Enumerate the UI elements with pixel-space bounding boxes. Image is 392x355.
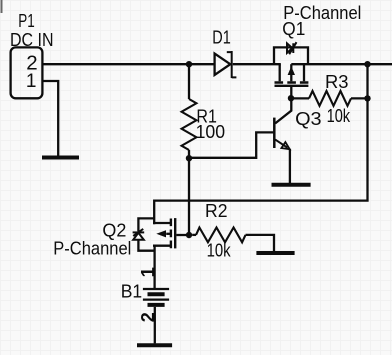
svg-text:2: 2 (138, 312, 158, 322)
svg-text:1: 1 (137, 267, 158, 277)
svg-text:B1: B1 (121, 280, 143, 301)
svg-text:Q3: Q3 (295, 108, 322, 129)
svg-text:10k: 10k (207, 240, 232, 261)
svg-text:DC IN: DC IN (10, 29, 54, 50)
svg-text:Q1: Q1 (282, 18, 305, 39)
svg-text:R3: R3 (325, 71, 349, 92)
svg-text:R2: R2 (205, 200, 228, 221)
svg-text:10k: 10k (327, 105, 351, 126)
svg-text:D1: D1 (212, 26, 231, 47)
svg-text:P-Channel: P-Channel (53, 238, 131, 259)
svg-text:1: 1 (26, 71, 37, 92)
svg-text:P1: P1 (18, 10, 35, 31)
svg-text:100: 100 (196, 121, 226, 142)
